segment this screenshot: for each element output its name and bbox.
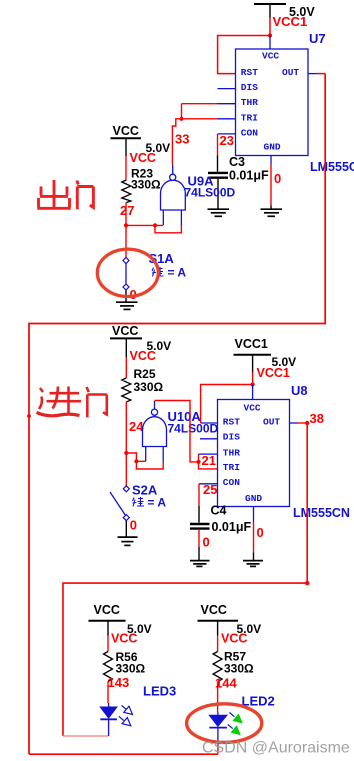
svg-text:GND: GND	[245, 493, 262, 504]
label U10A	[168, 409, 202, 424]
wire bottom return (to U7 OUT net)	[29, 753, 218, 755]
svg-text:TRI: TRI	[223, 462, 240, 473]
svg-text:LM555CN: LM555CN	[310, 160, 354, 174]
svg-text:25: 25	[203, 482, 217, 497]
resistor R23	[122, 167, 161, 203]
svg-text:330Ω: 330Ω	[134, 380, 164, 394]
wire S1A to ground	[125, 290, 127, 302]
LED LED3	[100, 705, 132, 726]
svg-text:330Ω: 330Ω	[224, 662, 254, 676]
svg-text:VCC: VCC	[112, 324, 138, 338]
wire R25 to S2A node	[124, 402, 128, 486]
wire THR/TRI net from gate U9A	[172, 104, 217, 165]
svg-text:THR: THR	[223, 447, 240, 458]
ground (C3)	[208, 209, 230, 216]
wire CON U7 to C3	[217, 134, 219, 172]
pin stub THR U8	[199, 453, 218, 455]
node 0 (C4)	[203, 535, 210, 550]
power VCC (LED2 branch)	[198, 603, 262, 652]
svg-text:THR: THR	[241, 97, 258, 108]
wire VCC1 to U8 VCC and RST	[201, 382, 255, 423]
pin stub THR U7	[218, 103, 236, 105]
label LED2	[242, 694, 275, 709]
label U9A	[188, 174, 215, 189]
label LED3	[143, 684, 176, 699]
annotation ellipse (LED2)	[187, 704, 262, 743]
svg-text:VCC: VCC	[221, 632, 247, 646]
switch S2A	[110, 486, 129, 521]
power VCC (middle)	[110, 324, 171, 378]
svg-text:LED3: LED3	[143, 684, 176, 699]
resistor R56	[104, 650, 146, 682]
svg-text:DIS: DIS	[241, 82, 258, 93]
watermark CSDN	[202, 740, 350, 757]
svg-text:330Ω: 330Ω	[131, 178, 161, 192]
svg-text:OUT: OUT	[263, 417, 280, 428]
pin stub CON U7	[218, 133, 236, 135]
label 键 = A (S1A)	[152, 266, 186, 280]
annotation ellipse (S1A)	[97, 249, 158, 296]
nand gate U10A	[143, 401, 167, 461]
svg-text:DIS: DIS	[223, 432, 240, 443]
label LM555CN (clipped)	[310, 160, 354, 174]
node 27	[120, 203, 134, 218]
power VCC (top left)	[111, 124, 171, 180]
svg-text:21: 21	[202, 453, 216, 468]
svg-text:U7: U7	[309, 31, 326, 46]
wire U7 GND	[270, 156, 272, 210]
svg-text:143: 143	[108, 675, 130, 690]
svg-text:0.01μF: 0.01μF	[229, 169, 269, 183]
svg-text:27: 27	[120, 203, 134, 218]
node 144	[215, 676, 237, 691]
pin stub DIS U8	[200, 438, 218, 440]
svg-text:74LS00D: 74LS00D	[185, 186, 236, 200]
wire U8 GND	[253, 507, 255, 561]
svg-text:144: 144	[215, 676, 237, 691]
node 0 (U7 gnd)	[274, 171, 281, 186]
svg-text:CSDN @Auroraisme: CSDN @Auroraisme	[202, 740, 350, 757]
svg-text:VCC1: VCC1	[257, 366, 290, 380]
wire VCC1 to U7 VCC and RST	[218, 18, 273, 74]
op-amp U8 timer box	[218, 400, 290, 507]
wire CON U8 to C4	[199, 484, 218, 523]
svg-text:0: 0	[257, 525, 264, 540]
svg-text:GND: GND	[264, 142, 281, 153]
svg-text:LM555CN: LM555CN	[293, 506, 350, 520]
power VCC1 (middle)	[234, 337, 297, 385]
svg-text:CON: CON	[223, 477, 240, 488]
svg-text:VCC1: VCC1	[273, 14, 308, 29]
pin stub TRI U7	[218, 118, 236, 120]
svg-text:23: 23	[220, 133, 234, 148]
wire R56 to LED3	[107, 682, 110, 708]
wire node to U9A inputs	[126, 223, 181, 233]
switch S1A	[123, 258, 129, 291]
ground (U7)	[261, 209, 283, 216]
svg-text:VCC: VCC	[94, 603, 120, 617]
LED LED2	[209, 713, 242, 735]
node 25	[203, 482, 217, 497]
svg-text:= A: = A	[148, 496, 167, 510]
svg-text:CON: CON	[241, 127, 258, 138]
node 0 (S1A)	[130, 287, 137, 302]
capacitor C3	[208, 155, 269, 209]
svg-text:38: 38	[310, 411, 324, 426]
node 33	[175, 132, 189, 147]
ground (S1A)	[116, 302, 138, 309]
label S2A	[132, 483, 158, 498]
svg-text:= A: = A	[168, 266, 187, 280]
svg-text:U8: U8	[291, 383, 308, 398]
label 键 = A (S2A)	[133, 496, 167, 510]
ground (U8)	[243, 561, 263, 567]
svg-text:TRI: TRI	[241, 112, 258, 123]
wire LED2 cathode	[217, 728, 219, 755]
svg-text:VCC: VCC	[244, 403, 261, 414]
svg-text:33: 33	[175, 132, 189, 147]
label 74LS00D (U9A)	[185, 186, 236, 200]
wire U8 OUT to LED3	[63, 421, 309, 736]
node 24	[129, 419, 144, 434]
svg-text:VCC: VCC	[201, 603, 227, 617]
svg-text:VCC: VCC	[113, 124, 139, 138]
node 38	[310, 411, 324, 426]
ground (S2A)	[118, 537, 138, 545]
annotation text 进门	[37, 387, 107, 418]
ground (C4)	[190, 561, 210, 567]
op-amp U7 timer box	[236, 49, 309, 156]
capacitor C4	[190, 504, 251, 561]
svg-text:C3: C3	[229, 155, 245, 169]
wire S2A to ground	[125, 521, 127, 537]
wire LED3 cathode	[108, 719, 110, 736]
node 143	[108, 675, 130, 690]
svg-text:C4: C4	[211, 504, 227, 518]
svg-text:VCC: VCC	[262, 51, 279, 62]
svg-text:VCC1: VCC1	[235, 337, 268, 351]
wire node to U10A inputs	[126, 453, 163, 469]
node 23	[220, 133, 234, 148]
power VCC (LED3 branch)	[89, 603, 152, 652]
svg-text:RST: RST	[241, 67, 258, 78]
nand gate U9A	[161, 165, 186, 226]
svg-text:OUT: OUT	[282, 67, 299, 78]
svg-text:330Ω: 330Ω	[116, 662, 146, 676]
node 21	[202, 453, 216, 468]
svg-text:0: 0	[274, 171, 281, 186]
svg-text:RST: RST	[223, 417, 240, 428]
label U8	[291, 383, 308, 398]
label S1A	[149, 251, 175, 266]
annotation text 出门	[37, 180, 93, 209]
pin stub DIS U7	[218, 88, 236, 90]
wire R23 to S1A node	[124, 203, 128, 258]
label U7	[309, 31, 326, 46]
svg-text:VCC: VCC	[130, 349, 156, 363]
resistor R57	[213, 650, 254, 683]
node 0 (S2A)	[130, 518, 137, 533]
resistor R25	[122, 367, 164, 402]
svg-text:0: 0	[130, 518, 137, 533]
svg-text:0: 0	[203, 535, 210, 550]
wire U10A output to U8 THR/TRI	[155, 401, 218, 469]
power VCC1 (top)	[254, 4, 315, 29]
wire U7 OUT	[27, 74, 325, 755]
svg-text:0.01μF: 0.01μF	[212, 520, 252, 534]
wire R57 to LED2	[217, 682, 219, 715]
svg-text:VCC: VCC	[111, 632, 137, 646]
svg-text:R25: R25	[134, 367, 156, 381]
label LM555CN (U8)	[293, 506, 350, 520]
node 0 (U8 gnd)	[257, 525, 264, 540]
label 74LS00D (U10A)	[168, 422, 219, 436]
svg-text:VCC: VCC	[130, 151, 156, 165]
